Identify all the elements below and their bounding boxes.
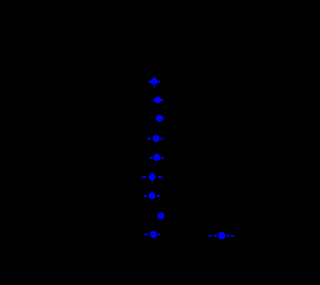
errorbar point 2 xyxy=(153,97,163,104)
errorbar point 6 xyxy=(142,173,162,183)
errorbar point 5 xyxy=(150,153,164,161)
errorbar point 10 (dashed bar, right) xyxy=(209,232,234,240)
errorbar point 3 xyxy=(155,115,163,122)
errorbar point 7 xyxy=(144,192,160,200)
point 8 (no error bar) xyxy=(157,212,164,219)
errorbar point 1 xyxy=(149,77,161,87)
errorbar point 9 xyxy=(145,231,160,238)
errorbar point 4 xyxy=(148,135,163,142)
